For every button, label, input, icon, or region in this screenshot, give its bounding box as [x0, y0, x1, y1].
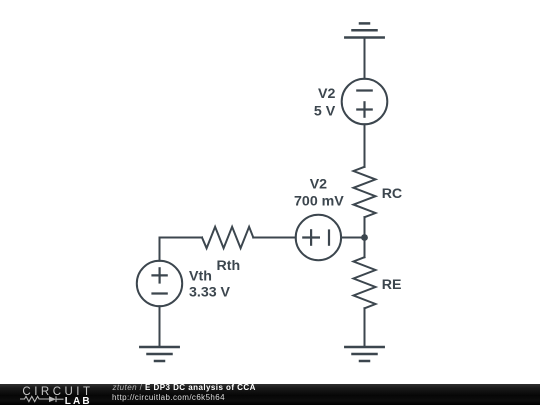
svg-text:V2: V2 [318, 86, 335, 102]
svg-text:Rth: Rth [217, 258, 241, 274]
svg-text:RC: RC [382, 186, 403, 202]
svg-text:5 V: 5 V [314, 103, 336, 119]
svg-text:700 mV: 700 mV [294, 194, 344, 210]
svg-text:3.33 V: 3.33 V [189, 284, 231, 300]
svg-text:RE: RE [382, 277, 402, 293]
svg-text:Vth: Vth [189, 268, 212, 284]
svg-text:V2: V2 [310, 177, 327, 193]
svg-text:LAB: LAB [65, 396, 92, 405]
